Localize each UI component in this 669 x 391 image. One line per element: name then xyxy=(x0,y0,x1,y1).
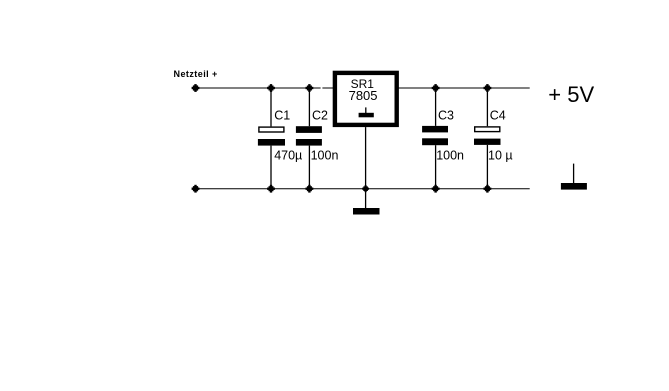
junction C4 top xyxy=(484,84,492,92)
node Netzteil+ input terminal (top left) xyxy=(192,84,200,92)
junction C1 top xyxy=(267,84,275,92)
C1 negative plate (solid) xyxy=(258,139,285,146)
svg-text:C1: C1 xyxy=(274,108,290,122)
wire C4 upper lead xyxy=(486,88,488,126)
svg-text:470µ: 470µ xyxy=(274,149,302,163)
svg-text:C2: C2 xyxy=(312,108,328,122)
junction C4 bottom xyxy=(484,185,492,193)
SR1 tab symbol inside package xyxy=(359,107,374,117)
junction SR1 ground stem on bottom rail xyxy=(362,185,369,192)
capacitor C2 (ceramic 100n) xyxy=(296,88,322,189)
C4 negative plate (solid) xyxy=(474,139,501,145)
capacitor C4 (electrolytic 10u) xyxy=(474,88,501,189)
svg-text:C3: C3 xyxy=(438,108,454,122)
wire top rail: input node to C2 junction stub xyxy=(196,87,321,89)
junction C2 bottom xyxy=(306,185,314,193)
C1 positive plate (hollow) xyxy=(259,127,284,132)
wire C4 lower lead xyxy=(486,145,488,189)
C2 plate top (solid) xyxy=(296,126,322,133)
wire top rail stub: gap to SR1 left pin xyxy=(322,87,333,89)
capacitor C1 (electrolytic 470u) xyxy=(258,88,285,189)
wire SR1 ground pin to ground symbol xyxy=(365,127,367,208)
regulator SR1 7805 box xyxy=(335,73,397,125)
junction C3 bottom xyxy=(432,185,440,193)
wire C3 upper lead xyxy=(435,88,437,126)
svg-text:100n: 100n xyxy=(311,149,339,163)
junction C1 bottom xyxy=(267,185,275,193)
junction C2 top xyxy=(306,84,314,92)
C3 plate bottom (solid) xyxy=(422,138,448,145)
svg-text:Netzteil +: Netzteil + xyxy=(174,69,218,79)
svg-text:100n: 100n xyxy=(436,149,464,163)
wire top rail: SR1 right pin to +5V output end xyxy=(398,87,529,89)
C4 positive plate (hollow) xyxy=(475,127,500,132)
wire C1 upper lead xyxy=(270,88,272,126)
svg-text:7805: 7805 xyxy=(349,88,378,103)
node ground rail input terminal (bottom left) xyxy=(192,185,200,193)
svg-text:C4: C4 xyxy=(490,108,506,122)
wire C3 lower lead xyxy=(435,145,437,189)
junction C3 top xyxy=(432,84,440,92)
wire C2 lower lead xyxy=(308,146,310,189)
capacitor C3 (ceramic 100n) xyxy=(422,88,448,189)
wire bottom rail (ground rail) xyxy=(196,188,530,190)
C3 plate top (solid) xyxy=(422,126,448,132)
ground symbol below SR1 xyxy=(353,208,380,215)
wire C1 lower lead xyxy=(270,146,272,189)
ground symbol at right (reference) xyxy=(561,164,587,190)
C2 plate bottom (solid) xyxy=(296,139,322,146)
svg-text:10 µ: 10 µ xyxy=(488,149,513,163)
svg-text:+ 5V: + 5V xyxy=(548,82,594,107)
wire C2 upper lead xyxy=(308,88,310,126)
